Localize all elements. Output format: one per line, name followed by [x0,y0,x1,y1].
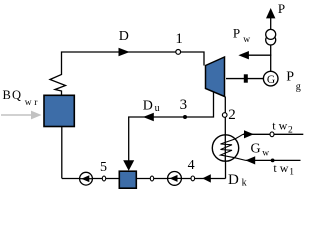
svg-text:w: w [243,35,250,45]
label G w (cooling water flow) [251,142,270,159]
label t w 1 [273,161,294,178]
heat input arrow BQwr (gray) [1,111,42,120]
node between heater and condensate pump [150,176,153,181]
generator G [263,71,278,86]
arrow on tw2 (pointing right) [244,130,254,138]
wire: turbine exhaust down to condenser [224,97,226,136]
shaft turbine to generator [226,78,264,80]
svg-text:u: u [155,103,160,114]
svg-text:D: D [143,98,153,113]
arrow Du on extraction line (pointing left) [143,113,154,121]
node on tw1 line (filled) [271,159,275,163]
node 1 [176,50,181,55]
svg-text:D: D [228,172,239,188]
wire: exhaust passing through condenser [224,136,226,162]
turbine [206,57,225,97]
arrow into heater (pointing down) [123,160,134,171]
svg-text:4: 4 [188,158,195,173]
node 3 (filled) [183,115,187,119]
svg-text:G: G [267,74,275,86]
svg-text:r: r [34,98,38,108]
wire: house load branch [248,54,272,56]
wire: cooling water outlet tw2 [243,133,303,135]
svg-text:D: D [119,29,129,44]
label B Q wr [3,88,39,108]
condensate pump (right, near node 4) [168,172,182,186]
svg-text:5: 5 [100,160,107,175]
svg-text:w: w [280,161,289,175]
svg-text:w: w [25,98,32,108]
svg-text:2: 2 [228,107,236,123]
wire: cooling water inlet tw1 [246,159,301,161]
label D k [228,172,247,189]
feed pump (left, item near node 5) [80,172,93,185]
arrow on steam line D [119,48,130,56]
node on tw2 line [270,132,274,137]
wire: condenser bottom to condensate line [225,161,227,179]
condenser circle [212,135,238,161]
label D u [143,98,160,114]
label P g [286,70,300,93]
svg-text:w: w [262,149,269,159]
svg-text:k: k [242,178,247,189]
wire: extraction steam line from turbine to heater [129,92,214,161]
shaft coupling (black) [244,74,248,82]
arrow P w (pointing left) [238,51,249,59]
condenser cooling coil zigzag [221,134,246,160]
boiler B [44,95,74,126]
transformer (two circles) [266,29,276,45]
label P w [233,26,250,45]
node 2 [222,113,227,118]
svg-text:3: 3 [180,97,188,113]
svg-text:G: G [251,142,261,157]
svg-text:1: 1 [175,31,183,47]
svg-text:B: B [3,88,11,102]
arrow Dk on condensate line (pointing left) [202,174,211,182]
svg-text:t: t [273,161,277,175]
wire: generator up to transformer [270,45,272,71]
svg-text:P: P [286,70,294,85]
wire: left downcomer boiler to bottom line [61,127,63,179]
wire: bottom condensate/feedwater line [62,178,226,180]
node 5 [102,176,105,181]
label t w 2 [272,119,293,136]
wire: transformer up to P arrow [270,14,272,29]
svg-text:t: t [272,119,276,133]
node 4 [191,176,195,181]
svg-text:g: g [296,82,301,93]
arrow on tw1 (pointing left) [245,156,255,164]
arrow P (output power, up) [266,8,275,18]
svg-text:w: w [279,119,288,133]
wire: main steam line boiler top to turbine inlet with superheater zigzag [50,52,204,96]
svg-text:P: P [233,26,240,41]
svg-text:2: 2 [288,126,293,136]
svg-text:P: P [278,1,285,16]
svg-text:Q: Q [12,88,21,102]
feedwater heater box [119,171,136,188]
svg-text:1: 1 [289,168,294,178]
